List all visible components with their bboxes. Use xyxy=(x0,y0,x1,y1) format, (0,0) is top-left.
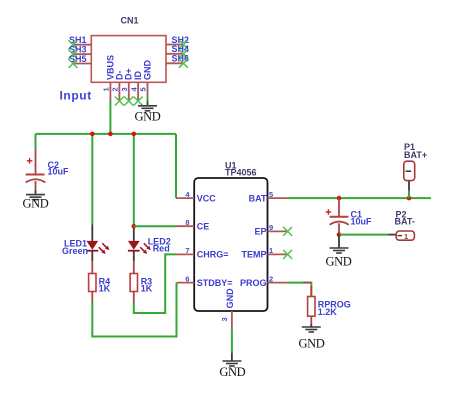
pin SH2 stub xyxy=(166,44,183,46)
svg-text:GND: GND xyxy=(219,365,245,379)
svg-text:TEMP: TEMP xyxy=(241,250,266,260)
svg-text:EP: EP xyxy=(254,227,266,237)
svg-text:BAT+: BAT+ xyxy=(404,150,427,160)
capacitor C2 xyxy=(26,149,46,190)
pin 4 VCC stub xyxy=(176,197,194,199)
svg-text:5: 5 xyxy=(269,190,273,199)
wire rail down to LED2 xyxy=(133,134,135,228)
svg-text:8: 8 xyxy=(185,218,189,227)
CN1 pin 1 VBUS stub xyxy=(109,82,111,101)
junction at C1 top xyxy=(337,196,342,201)
pin 3 GND stub xyxy=(231,311,233,329)
junction at LED1 column xyxy=(90,132,95,137)
pin 9 EP stub xyxy=(268,230,288,232)
wire R4 to STDBY xyxy=(92,283,176,337)
wire C1 to P2 xyxy=(339,234,388,236)
svg-text:GND: GND xyxy=(225,288,235,309)
svg-text:10uF: 10uF xyxy=(48,167,70,177)
pin SH1 stub xyxy=(73,44,91,46)
svg-text:TP4056: TP4056 xyxy=(225,168,257,178)
svg-text:BAT-: BAT- xyxy=(395,217,415,227)
connector CN1 body xyxy=(91,36,166,83)
pin 7 CHRG stub xyxy=(176,253,194,255)
pin SH4 stub xyxy=(166,53,183,55)
wire CN1 pin5 to GND xyxy=(147,96,149,102)
svg-text:CE: CE xyxy=(197,221,210,231)
wire BAT rail xyxy=(287,197,431,199)
svg-text:GND: GND xyxy=(299,337,325,351)
svg-text:STDBY=: STDBY= xyxy=(197,278,233,288)
svg-text:Red: Red xyxy=(153,244,170,254)
no-connect X on EP xyxy=(283,227,292,236)
svg-text:3: 3 xyxy=(120,87,129,91)
no-connect X on SH4 xyxy=(179,49,188,58)
ground symbol at RPROG xyxy=(299,324,325,351)
svg-text:GND: GND xyxy=(23,197,49,211)
ground symbol at CN1 xyxy=(135,102,161,124)
svg-text:GND: GND xyxy=(326,255,352,269)
LED2 diode xyxy=(128,228,151,261)
wire rail down to VCC xyxy=(175,134,177,198)
junction at C1 bottom xyxy=(337,232,342,237)
ground symbol at C1 xyxy=(326,235,352,269)
pin SH3 stub xyxy=(73,53,91,55)
svg-text:GND: GND xyxy=(142,60,152,81)
resistor R3 xyxy=(130,261,137,302)
svg-text:2: 2 xyxy=(269,274,273,283)
op-amp U1 body xyxy=(194,178,267,311)
no-connect X on pin 4 xyxy=(134,97,143,106)
svg-text:2: 2 xyxy=(111,87,120,91)
wire rail down to LED1 xyxy=(91,134,93,225)
pin 8 CE stub xyxy=(176,225,194,227)
wire R3 to CHRG xyxy=(134,254,176,313)
wire CE xyxy=(134,225,176,227)
svg-text:3: 3 xyxy=(220,317,229,321)
svg-text:7: 7 xyxy=(185,246,189,255)
CN1 pin 2 D- stub xyxy=(118,82,120,101)
wire rail down to C2 xyxy=(35,134,37,149)
wire PROG to RPROG xyxy=(287,283,311,297)
junction at LED2 column xyxy=(132,132,137,137)
svg-text:1: 1 xyxy=(102,87,111,91)
svg-text:1: 1 xyxy=(404,232,408,241)
svg-text:CHRG=: CHRG= xyxy=(197,250,229,260)
svg-text:Input: Input xyxy=(60,89,92,103)
wire CN1 pin1 down to bus xyxy=(109,101,111,134)
svg-text:1K: 1K xyxy=(99,284,111,294)
svg-text:SH6: SH6 xyxy=(172,54,190,64)
svg-text:4: 4 xyxy=(129,87,138,92)
svg-text:1.2K: 1.2K xyxy=(318,307,338,317)
pin 6 STDBY stub xyxy=(177,282,195,284)
svg-text:GND: GND xyxy=(135,110,161,124)
svg-text:Green: Green xyxy=(62,246,88,256)
no-connect X on SH1 xyxy=(69,40,78,49)
svg-text:9: 9 xyxy=(269,223,273,232)
resistor RPROG xyxy=(303,283,315,324)
pin SH5 stub xyxy=(73,63,91,65)
no-connect X on SH5 xyxy=(69,59,78,68)
svg-text:10uF: 10uF xyxy=(351,217,373,227)
capacitor C1 xyxy=(326,198,349,235)
CN1 pin 5 GND stub xyxy=(147,82,149,95)
pin 1 TEMP stub xyxy=(268,253,288,255)
svg-text:PROG: PROG xyxy=(240,278,267,288)
pin 5 BAT stub xyxy=(268,197,288,199)
no-connect X on SH2 xyxy=(179,40,188,49)
CN1 pin 3 D+ stub xyxy=(128,82,130,101)
no-connect X on SH3 xyxy=(69,50,78,59)
connector P2 xyxy=(388,231,414,241)
connector P1 xyxy=(404,161,415,198)
no-connect X on pin 3 xyxy=(124,97,133,106)
junction at P1 xyxy=(407,196,412,201)
svg-text:1K: 1K xyxy=(141,284,153,294)
svg-text:SH4: SH4 xyxy=(172,44,190,54)
svg-text:BAT: BAT xyxy=(249,193,267,203)
wire U1 GND down xyxy=(231,329,233,353)
svg-text:6: 6 xyxy=(185,274,189,283)
LED1 diode xyxy=(86,225,109,262)
no-connect X on TEMP xyxy=(283,250,292,259)
pin 2 PROG stub xyxy=(268,282,288,284)
pin SH6 stub xyxy=(166,62,183,64)
junction at VBUS column xyxy=(108,132,113,137)
no-connect X on SH6 xyxy=(179,59,188,68)
CN1 pin 4 ID stub xyxy=(137,82,139,101)
junction at CE wire xyxy=(132,224,137,229)
wire main horizontal VBUS rail xyxy=(36,133,177,135)
resistor R4 xyxy=(89,261,96,302)
svg-text:1: 1 xyxy=(269,246,273,255)
svg-text:VCC: VCC xyxy=(197,193,217,203)
svg-text:5: 5 xyxy=(139,87,148,91)
ground symbol at U1 xyxy=(219,353,245,379)
svg-text:CN1: CN1 xyxy=(121,16,139,26)
ground symbol at C2 xyxy=(23,190,49,211)
no-connect X on pin 2 xyxy=(115,97,124,106)
